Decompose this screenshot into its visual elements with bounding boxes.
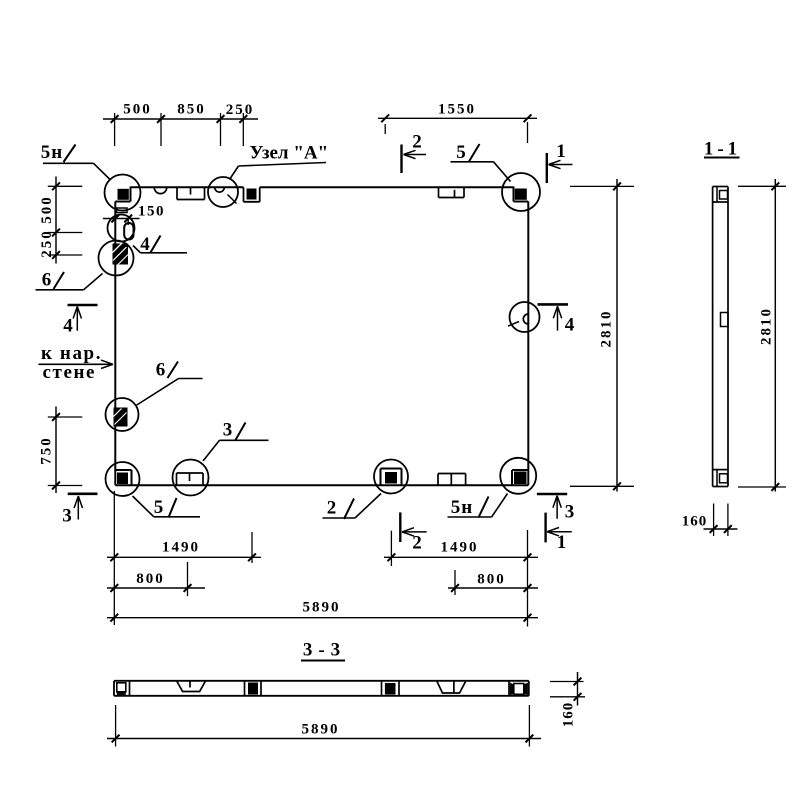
svg-text:2810: 2810 <box>759 307 775 345</box>
svg-text:800: 800 <box>136 571 165 587</box>
svg-text:250: 250 <box>39 229 55 258</box>
svg-text:150: 150 <box>138 204 165 220</box>
svg-text:1550: 1550 <box>438 102 476 118</box>
svg-text:4: 4 <box>565 315 576 336</box>
svg-text:750: 750 <box>39 436 55 465</box>
svg-text:1490: 1490 <box>162 539 200 555</box>
svg-text:6: 6 <box>42 270 53 291</box>
svg-text:250: 250 <box>226 102 255 118</box>
svg-text:5: 5 <box>456 142 467 163</box>
svg-text:2: 2 <box>412 533 423 554</box>
svg-text:500: 500 <box>123 102 152 118</box>
svg-text:к нар.: к нар. <box>41 343 102 364</box>
svg-text:2: 2 <box>412 132 423 153</box>
svg-text:5890: 5890 <box>302 722 340 738</box>
svg-text:2: 2 <box>327 498 338 519</box>
svg-text:Узел "А": Узел "А" <box>249 143 328 164</box>
svg-text:1490: 1490 <box>441 540 479 556</box>
svg-text:800: 800 <box>477 571 506 587</box>
svg-text:5890: 5890 <box>303 599 341 615</box>
svg-text:3: 3 <box>223 420 234 441</box>
svg-text:2810: 2810 <box>599 310 615 348</box>
svg-text:5: 5 <box>154 497 165 518</box>
svg-text:3: 3 <box>565 502 576 523</box>
svg-text:160: 160 <box>561 702 577 728</box>
svg-text:6: 6 <box>156 360 167 381</box>
svg-text:1: 1 <box>557 532 568 553</box>
svg-text:4: 4 <box>140 234 151 255</box>
svg-text:3-3: 3-3 <box>303 640 346 661</box>
svg-text:3: 3 <box>62 506 73 527</box>
svg-text:5н: 5н <box>451 497 473 518</box>
svg-text:стене: стене <box>43 362 97 383</box>
svg-text:5н: 5н <box>41 142 63 163</box>
svg-text:4: 4 <box>63 316 74 337</box>
svg-text:160: 160 <box>682 514 708 530</box>
svg-text:1: 1 <box>556 141 567 162</box>
svg-text:850: 850 <box>177 102 206 118</box>
svg-text:1-1: 1-1 <box>704 139 741 160</box>
svg-text:500: 500 <box>39 195 55 224</box>
